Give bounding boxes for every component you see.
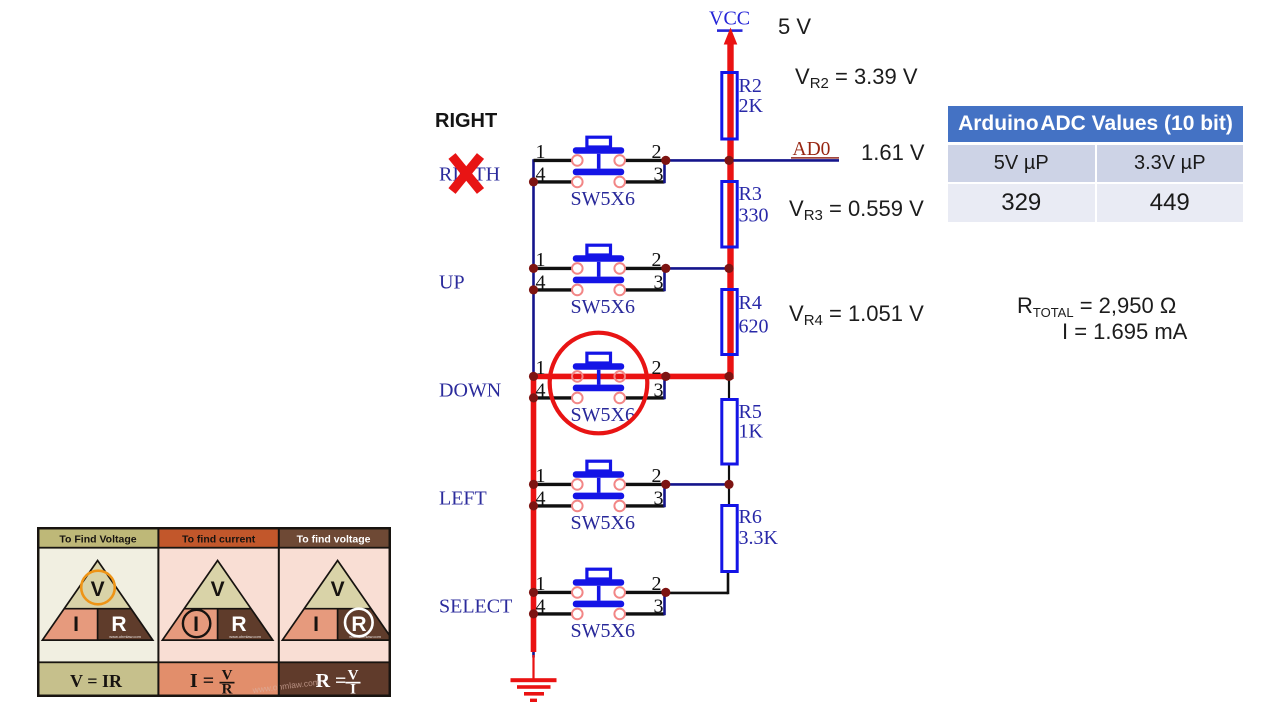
label VR2 = 3.39 V bbox=[795, 66, 918, 91]
svg-text:DOWN: DOWN bbox=[439, 379, 501, 401]
svg-text:R: R bbox=[111, 613, 126, 636]
button actuator (SELECT) bbox=[573, 569, 624, 607]
wire: left rail navy (RIGHT pin1 down to DOWN row) bbox=[532, 159, 535, 377]
label VR3 = 0.559 V bbox=[789, 198, 924, 223]
pin number 4 (DOWN) bbox=[536, 379, 546, 401]
wire: rail segment R5 to R6 bbox=[728, 464, 730, 507]
pin number 3 (UP) bbox=[654, 271, 664, 293]
svg-text:V: V bbox=[91, 578, 105, 601]
svg-text:1K: 1K bbox=[739, 421, 764, 443]
formula I = V/R bbox=[190, 668, 235, 698]
pin number 4 (SELECT) bbox=[536, 595, 546, 617]
wire pin2-pin3 tie (UP) bbox=[663, 268, 666, 291]
table row: 5V uP / 3.3V uP bbox=[948, 145, 1243, 182]
junction dots bbox=[529, 156, 734, 619]
svg-text:SELECT: SELECT bbox=[439, 595, 512, 617]
pin pads (SELECT) bbox=[572, 587, 625, 619]
svg-text:2: 2 bbox=[652, 357, 662, 379]
svg-text:V: V bbox=[211, 578, 225, 601]
outer border frame bbox=[38, 528, 390, 696]
wire pin 3 (UP) bbox=[625, 288, 665, 291]
part label SW5X6 (SELECT) bbox=[571, 620, 635, 642]
wire: red current path horizontal through DOWN switch row bbox=[531, 374, 733, 380]
svg-text:2: 2 bbox=[652, 573, 662, 595]
pin number 4 (LEFT) bbox=[536, 487, 546, 509]
wire pin 4 (SELECT) bbox=[534, 612, 573, 615]
resistor R2 2K bbox=[722, 73, 764, 140]
svg-text:www.ohmlaw.com: www.ohmlaw.com bbox=[349, 634, 381, 639]
part label SW5X6 (UP) bbox=[571, 296, 635, 318]
part label SW5X6 (RIGHT) bbox=[571, 188, 635, 210]
part label SW5X6 (LEFT) bbox=[571, 512, 635, 534]
svg-text:3.3K: 3.3K bbox=[739, 527, 779, 549]
part label SW5X6 (DOWN) bbox=[571, 404, 635, 426]
svg-text:R: R bbox=[351, 613, 366, 636]
svg-text:R2: R2 bbox=[739, 75, 762, 97]
svg-text:LEFT: LEFT bbox=[439, 487, 487, 509]
svg-text:2: 2 bbox=[652, 249, 662, 271]
pushbutton switch SW5X6 (DOWN row) bbox=[534, 353, 665, 426]
wire pin 1 (DOWN) bbox=[534, 375, 573, 378]
pin number 1 (DOWN) bbox=[536, 357, 546, 379]
pin number 1 (LEFT) bbox=[536, 465, 546, 487]
svg-text:2: 2 bbox=[652, 141, 662, 163]
wire pin2-pin3 tie (LEFT) bbox=[663, 484, 666, 507]
svg-text:1: 1 bbox=[536, 141, 546, 163]
svg-text:To find voltage: To find voltage bbox=[297, 534, 371, 546]
column divider lines bbox=[37, 527, 391, 697]
wire pin 4 (UP) bbox=[534, 288, 573, 291]
label VR4 = 1.051 V bbox=[789, 303, 924, 328]
label I = 1.695 mA bbox=[1062, 321, 1187, 343]
net label UP bbox=[439, 271, 465, 293]
wire: red current path left rail down to ground bbox=[531, 376, 537, 652]
svg-text:3: 3 bbox=[654, 595, 664, 617]
resistor R5 1K bbox=[722, 400, 764, 465]
wire pin 2 (UP) bbox=[625, 267, 665, 270]
table header row bbox=[948, 106, 1243, 142]
wire: SELECT row to R6 bottom bbox=[664, 571, 728, 594]
wire: AD0 net horizontal bbox=[664, 159, 839, 162]
pin number 2 (LEFT) bbox=[652, 465, 662, 487]
wire: LEFT row to rail bbox=[664, 483, 730, 486]
svg-text:R3: R3 bbox=[739, 183, 762, 205]
wire pin 3 (DOWN) bbox=[625, 396, 665, 399]
pin number 4 (UP) bbox=[536, 271, 546, 293]
net label SELECT bbox=[439, 595, 512, 617]
watermark www.ohmlaw.com bbox=[251, 677, 320, 695]
wire pin 1 (UP) bbox=[534, 267, 573, 270]
wire pin 2 (DOWN) bbox=[625, 375, 665, 378]
pin pads (RIGHT) bbox=[572, 155, 625, 187]
wire pin 2 (RIGHT) bbox=[625, 159, 665, 162]
power net VCC label bbox=[709, 8, 750, 32]
wire pin 4 (DOWN) bbox=[534, 396, 573, 399]
pin number 3 (RIGHT) bbox=[654, 163, 664, 185]
wire: rail segment DOWN row to R5 bbox=[728, 377, 730, 400]
pin pads (DOWN) bbox=[572, 371, 625, 403]
pin number 2 (SELECT) bbox=[652, 573, 662, 595]
wire: red current path vertical from VCC down through R2 R3 R4 bbox=[724, 28, 738, 380]
label 5 V bbox=[778, 16, 811, 38]
svg-text:To find current: To find current bbox=[182, 534, 256, 546]
button actuator (UP) bbox=[573, 245, 624, 283]
svg-text:I =: I = bbox=[190, 670, 214, 692]
svg-text:I: I bbox=[73, 613, 79, 636]
svg-text:3: 3 bbox=[654, 379, 664, 401]
svg-text:3: 3 bbox=[654, 271, 664, 293]
svg-text:www.ohmlaw.com: www.ohmlaw.com bbox=[229, 634, 261, 639]
net label DOWN bbox=[439, 379, 501, 401]
pin number 4 (RIGHT) bbox=[536, 163, 546, 185]
pin number 2 (DOWN) bbox=[652, 357, 662, 379]
heading RIGHT bbox=[435, 110, 497, 133]
label RTOTAL = 2,950 ohm bbox=[1017, 295, 1176, 319]
net label LEFT bbox=[439, 487, 487, 509]
triangle 1 (voltage) bbox=[42, 561, 152, 641]
pin pads (LEFT) bbox=[572, 479, 625, 511]
wire pin2-pin3 tie (DOWN) bbox=[663, 376, 666, 399]
resistor R3 330 bbox=[722, 182, 769, 248]
svg-text:R4: R4 bbox=[739, 292, 762, 314]
svg-text:R =: R = bbox=[316, 670, 347, 692]
pin number 2 (RIGHT) bbox=[652, 141, 662, 163]
node AD0 net label bbox=[791, 139, 839, 160]
pin number 3 (LEFT) bbox=[654, 487, 664, 509]
svg-text:AD0: AD0 bbox=[793, 139, 831, 160]
panel backgrounds bbox=[37, 527, 391, 697]
wire pin 2 (LEFT) bbox=[625, 483, 665, 486]
net label RIGTH (crossed out) bbox=[439, 163, 500, 185]
pin number 1 (RIGHT) bbox=[536, 141, 546, 163]
annotation: red circle around DOWN switch bbox=[550, 333, 648, 434]
svg-text:2K: 2K bbox=[739, 95, 764, 117]
wire pin 2 (SELECT) bbox=[625, 591, 665, 594]
ohms law reference graphic bbox=[37, 527, 391, 697]
svg-text:3: 3 bbox=[654, 487, 664, 509]
label 1.61 V bbox=[861, 142, 925, 164]
table Arduino ADC Values (10 bit) bbox=[948, 106, 1243, 222]
button actuator (LEFT) bbox=[573, 461, 624, 499]
wire pin 1 (LEFT) bbox=[534, 483, 573, 486]
svg-text:R: R bbox=[231, 613, 246, 636]
panel headers bbox=[59, 534, 370, 546]
pushbutton switch SW5X6 (RIGHT row) bbox=[534, 137, 665, 210]
svg-text:3: 3 bbox=[654, 163, 664, 185]
pin number 3 (DOWN) bbox=[654, 379, 664, 401]
wire pin 3 (LEFT) bbox=[625, 504, 665, 507]
pin number 2 (UP) bbox=[652, 249, 662, 271]
svg-text:R6: R6 bbox=[739, 506, 762, 528]
wire pin 4 (LEFT) bbox=[534, 504, 573, 507]
svg-text:V: V bbox=[331, 578, 345, 601]
wire pin2-pin3 tie (SELECT) bbox=[663, 592, 666, 615]
triangle 3 (resistance) bbox=[282, 561, 392, 641]
svg-text:I: I bbox=[313, 613, 319, 636]
triangle 2 (current) bbox=[162, 561, 272, 641]
svg-text:VCC: VCC bbox=[709, 8, 750, 30]
svg-text:UP: UP bbox=[439, 271, 465, 293]
wire pin 3 (RIGHT) bbox=[625, 180, 665, 183]
pushbutton switch SW5X6 (LEFT row) bbox=[534, 461, 665, 534]
pin pads (UP) bbox=[572, 263, 625, 295]
pushbutton switch SW5X6 (UP row) bbox=[534, 245, 665, 318]
pin number 3 (SELECT) bbox=[654, 595, 664, 617]
wire pin2-pin3 tie (RIGHT) bbox=[663, 160, 666, 183]
wire pin 1 (SELECT) bbox=[534, 591, 573, 594]
annotation: red X over RIGTH label bbox=[452, 156, 481, 191]
svg-text:V = IR: V = IR bbox=[70, 671, 123, 691]
svg-text:SW5X6: SW5X6 bbox=[571, 512, 635, 534]
wire pin 3 (SELECT) bbox=[625, 612, 665, 615]
wire: UP row to rail bbox=[664, 267, 730, 270]
button actuator (DOWN) bbox=[573, 353, 624, 391]
resistor R6 3.3K bbox=[722, 506, 779, 572]
formula R = V/I bbox=[316, 668, 361, 698]
resistor R4 620 bbox=[722, 290, 769, 355]
ground symbol bbox=[511, 652, 557, 702]
svg-text:620: 620 bbox=[739, 316, 769, 338]
svg-text:2: 2 bbox=[652, 465, 662, 487]
svg-text:330: 330 bbox=[739, 205, 769, 227]
wire pin 4 (RIGHT) bbox=[534, 180, 573, 183]
button actuator (RIGHT) bbox=[573, 137, 624, 175]
formula V = IR bbox=[70, 671, 123, 691]
svg-text:To Find Voltage: To Find Voltage bbox=[59, 534, 136, 546]
svg-text:I: I bbox=[193, 613, 199, 636]
svg-text:SW5X6: SW5X6 bbox=[571, 296, 635, 318]
svg-text:www.ohmlaw.com: www.ohmlaw.com bbox=[109, 634, 141, 639]
table row: 329 / 449 bbox=[948, 184, 1243, 222]
pin number 1 (SELECT) bbox=[536, 573, 546, 595]
pushbutton switch SW5X6 (SELECT row) bbox=[534, 569, 665, 642]
pin number 1 (UP) bbox=[536, 249, 546, 271]
wire pin 1 (RIGHT) bbox=[534, 159, 573, 162]
svg-text:SW5X6: SW5X6 bbox=[571, 188, 635, 210]
svg-text:SW5X6: SW5X6 bbox=[571, 620, 635, 642]
